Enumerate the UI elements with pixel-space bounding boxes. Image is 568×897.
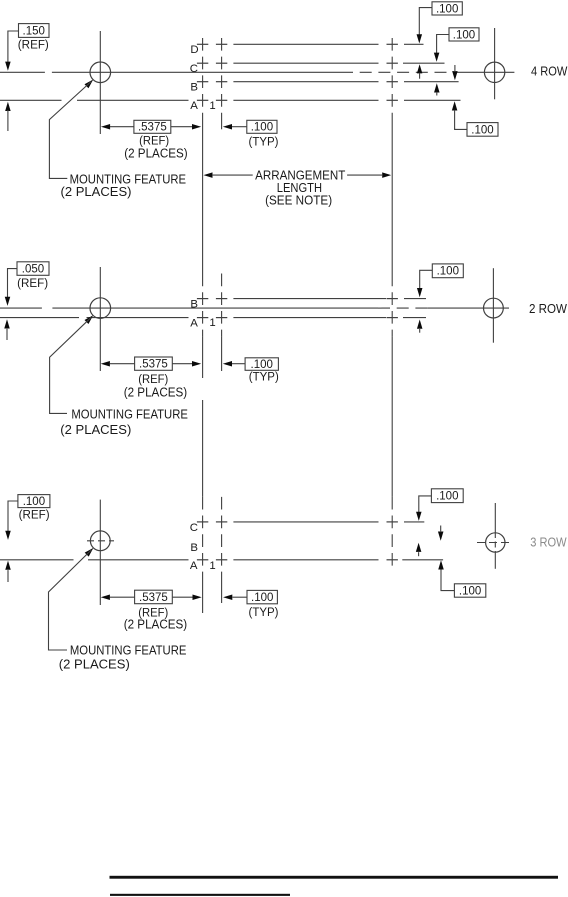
section1 right dim box .100 top xyxy=(432,2,462,15)
svg-text:C: C xyxy=(190,63,198,75)
section2 mounting centerline xyxy=(0,307,42,309)
section1 row B line xyxy=(197,81,208,83)
section1 4ROW left dim box .150 xyxy=(19,24,50,38)
section3 right dim box .100 bottom xyxy=(454,584,485,597)
section2 .5375 dimension xyxy=(101,361,110,367)
svg-text:(REF): (REF) xyxy=(139,133,169,147)
svg-text:MOUNTING FEATURE: MOUNTING FEATURE xyxy=(70,642,186,657)
svg-text:3 ROW: 3 ROW xyxy=(530,534,567,549)
section1 pin column 3 extension line xyxy=(391,119,393,274)
section3 arrow down to row B level xyxy=(438,532,444,541)
section1 right dim leader bottom xyxy=(455,128,467,131)
section1 arrow up to row C xyxy=(417,64,423,73)
section3 left dim up arrow xyxy=(5,561,11,570)
svg-text:B: B xyxy=(190,82,198,94)
section1 right mounting hole vertical centerline xyxy=(494,28,496,99)
svg-text:.100: .100 xyxy=(471,124,493,136)
svg-text:(2 PLACES): (2 PLACES) xyxy=(59,656,130,671)
section3 row A left line xyxy=(0,559,74,561)
svg-text:(REF): (REF) xyxy=(19,507,50,521)
section1 left dim leader xyxy=(8,31,19,62)
section3 right mounting hole xyxy=(486,533,505,552)
section3 left dim down arrow xyxy=(5,531,11,540)
section1 right dim box .100 bottom xyxy=(467,123,498,137)
section1 left mounting hole vertical centerline xyxy=(99,31,101,134)
svg-text:.100: .100 xyxy=(459,585,481,597)
section3 arrow up to row B level xyxy=(416,543,422,552)
svg-text:D: D xyxy=(190,44,198,56)
section3 pin column 2 dashed line xyxy=(221,497,223,579)
svg-text:(REF): (REF) xyxy=(18,37,49,51)
section2 pin column 2 dashed line xyxy=(221,274,223,337)
svg-text:4 ROW: 4 ROW xyxy=(531,64,568,79)
section2 right dim box .100 xyxy=(432,264,463,278)
svg-text:1: 1 xyxy=(209,560,215,572)
section3 row A line xyxy=(197,559,208,561)
svg-text:.050: .050 xyxy=(22,263,44,275)
section3 row C line xyxy=(197,521,208,523)
section1 leader arrow to mounting hole xyxy=(85,80,94,89)
svg-text:.150: .150 xyxy=(23,25,45,37)
section2 left mounting hole xyxy=(90,298,111,319)
section1 arrow down to row C xyxy=(434,53,440,62)
svg-text:.100: .100 xyxy=(251,592,273,604)
section3 arrow up to row A xyxy=(438,560,444,569)
section2 pin column 3 dashed line xyxy=(391,274,393,337)
svg-text:(2 PLACES): (2 PLACES) xyxy=(124,386,188,400)
svg-text:1: 1 xyxy=(209,317,215,329)
section2 row A line xyxy=(197,317,208,319)
section3 right mounting hole dashed horizontal centerline xyxy=(477,542,513,544)
section2 .100 TYP dimension xyxy=(223,361,232,367)
section1 left dim down arrow xyxy=(5,62,10,71)
section1 row A left line xyxy=(0,99,62,101)
svg-text:A: A xyxy=(190,318,198,330)
section1 pin column 3 dashed line xyxy=(391,38,393,119)
svg-text:(TYP): (TYP) xyxy=(249,605,279,619)
section1 right mounting hole xyxy=(484,62,504,82)
section3 .100 TYP dimension xyxy=(223,594,232,600)
section3 right mounting hole vertical centerline xyxy=(494,503,496,532)
section1 .100 TYP dimension xyxy=(223,124,232,130)
svg-text:.100: .100 xyxy=(437,266,459,278)
svg-text:(2 PLACES): (2 PLACES) xyxy=(60,422,131,437)
section2 left dim leader xyxy=(8,269,18,297)
section3 leader polyline xyxy=(49,550,92,650)
section3 leader arrow to mounting hole xyxy=(85,548,94,557)
svg-text:(2 PLACES): (2 PLACES) xyxy=(124,618,188,632)
svg-text:.100: .100 xyxy=(251,122,273,134)
section3 left mounting hole vertical centerline xyxy=(99,500,101,605)
section1 right dim leader top xyxy=(419,8,432,35)
section1 pin column 1 dashed line xyxy=(202,38,204,119)
section1 right dim leader second xyxy=(437,35,449,54)
section2 left dim up arrow xyxy=(4,319,10,328)
svg-text:B: B xyxy=(190,542,198,554)
section2 pin column 3 extension line xyxy=(391,337,393,497)
section1 leader polyline xyxy=(49,82,91,179)
section2 right dim leader xyxy=(420,270,433,288)
section3 pin column 1 extension line xyxy=(202,579,204,614)
bottom thick rule xyxy=(110,876,559,879)
section3 left dim box .100 xyxy=(18,495,50,508)
svg-text:(TYP): (TYP) xyxy=(249,134,279,148)
section2 left mounting hole vertical centerline xyxy=(99,267,101,371)
section2 pin column 1 extension line xyxy=(202,337,204,378)
section2 leader polyline xyxy=(50,317,92,413)
svg-text:A: A xyxy=(190,560,198,572)
svg-text:C: C xyxy=(190,522,198,534)
section2 leader arrow to mounting hole xyxy=(85,315,94,324)
svg-text:(2 PLACES): (2 PLACES) xyxy=(124,146,188,160)
section1 arrangement length dimension right arrow xyxy=(347,174,382,176)
section3 left mounting hole dashed horizontal centerline xyxy=(87,540,114,542)
section2 left dim down arrow xyxy=(5,297,11,306)
svg-text:(SEE NOTE): (SEE NOTE) xyxy=(265,192,332,207)
svg-text:(2 PLACES): (2 PLACES) xyxy=(61,184,132,199)
svg-text:(REF): (REF) xyxy=(138,372,168,386)
svg-text:.100: .100 xyxy=(23,496,45,508)
svg-text:.100: .100 xyxy=(436,3,458,15)
section3 .5375 dimension xyxy=(101,594,110,600)
section3 left mounting hole xyxy=(90,531,110,551)
section1 left mounting hole xyxy=(90,62,111,83)
section1 arrow up to row A xyxy=(452,101,458,110)
section3 pin column 3 dashed line xyxy=(391,497,393,567)
svg-text:1: 1 xyxy=(209,100,215,112)
section2 pin column 1 dashed line xyxy=(202,274,204,337)
svg-text:MOUNTING FEATURE: MOUNTING FEATURE xyxy=(71,407,187,422)
section3 left dim leader xyxy=(8,501,18,531)
section1 .5375 dimension xyxy=(101,124,110,130)
svg-text:A: A xyxy=(190,100,198,112)
section2 right mounting hole xyxy=(484,298,504,318)
section1 row D line xyxy=(197,43,208,45)
section3 arrow down to row C xyxy=(416,512,422,521)
section2 row A left line xyxy=(0,317,79,319)
section2 left dim box .050 xyxy=(17,262,49,276)
svg-text:.100: .100 xyxy=(453,29,475,41)
section1 right dim box .100 second xyxy=(449,28,479,41)
svg-text:B: B xyxy=(190,299,198,311)
section1 arrow down to row B xyxy=(452,71,458,80)
section2 right mounting hole vertical centerline xyxy=(492,268,494,343)
section1 mounting centerline xyxy=(0,71,45,73)
section1 arrangement length dimension left arrow xyxy=(204,172,213,178)
section1 arrow up to row B xyxy=(434,83,440,92)
section1 pin column 2 dashed line xyxy=(221,38,223,121)
svg-text:2 ROW: 2 ROW xyxy=(529,301,568,316)
section1 row A line xyxy=(197,99,208,101)
section3 right dim leader bottom xyxy=(441,569,454,591)
section2 arrow up to row A xyxy=(417,320,423,329)
section3 pin column 1 dashed line xyxy=(202,497,204,579)
section3 right dim leader top xyxy=(419,496,432,513)
section1 row C line xyxy=(197,62,208,64)
svg-text:.5375: .5375 xyxy=(138,122,167,134)
section2 row B line xyxy=(197,298,208,300)
svg-text:(TYP): (TYP) xyxy=(249,370,279,384)
section1 left dim up arrow xyxy=(5,102,10,111)
section1 pin column 1 extension line xyxy=(202,119,204,274)
section2 arrow down to row B xyxy=(417,288,423,297)
svg-text:.100: .100 xyxy=(436,491,458,503)
svg-text:.5375: .5375 xyxy=(139,592,168,604)
bottom thin rule xyxy=(110,894,290,896)
svg-text:(REF): (REF) xyxy=(17,276,48,290)
section1 arrow down to row D xyxy=(417,34,423,43)
section3 right dim box .100 top xyxy=(431,489,463,503)
svg-text:.5375: .5375 xyxy=(139,359,168,371)
